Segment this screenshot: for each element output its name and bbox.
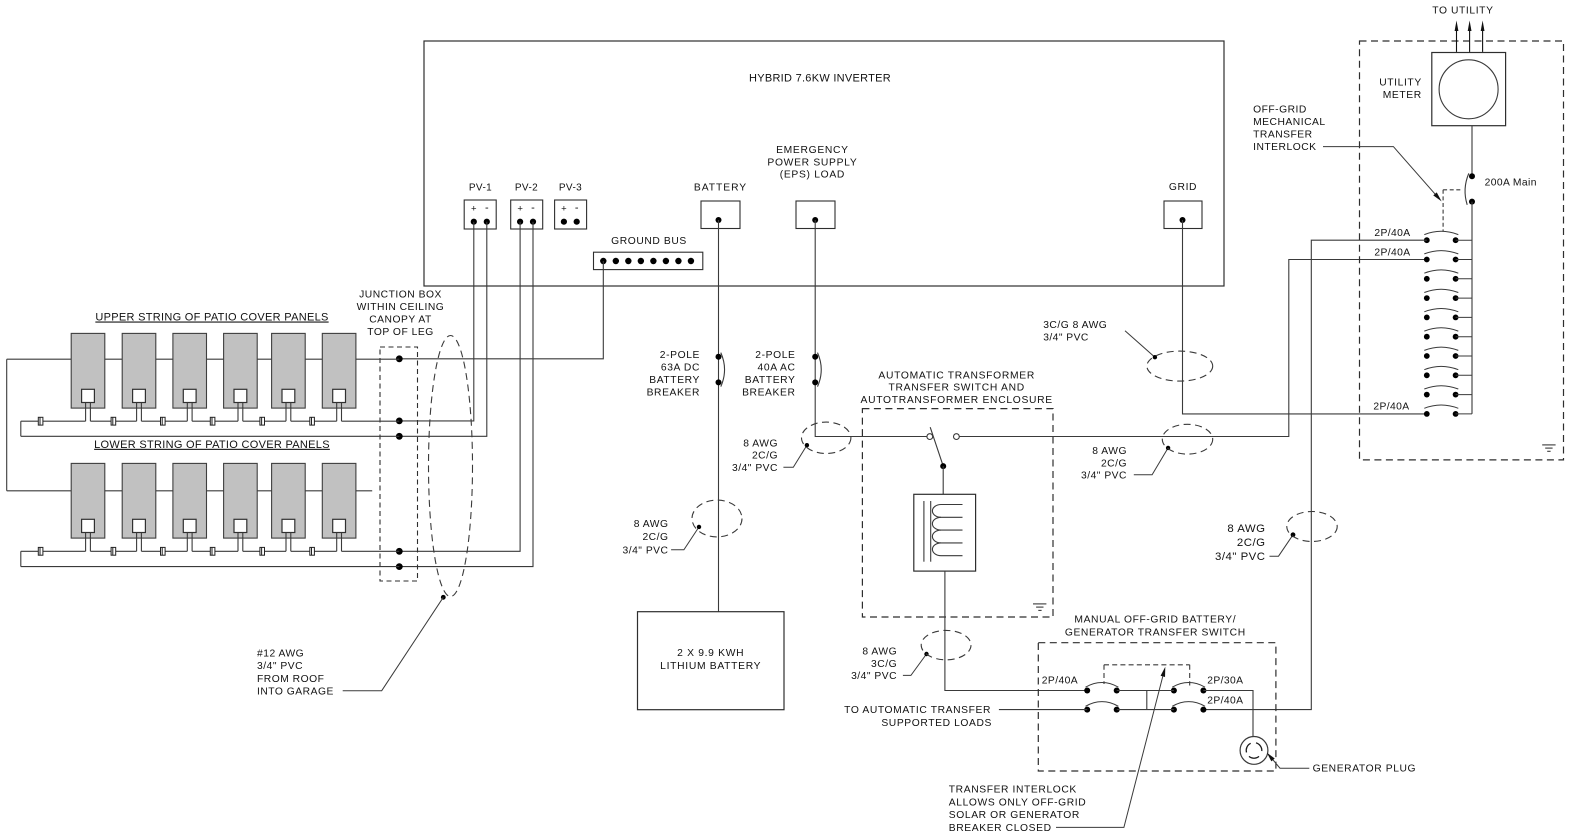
svg-text:2P/40A: 2P/40A xyxy=(1374,228,1410,239)
svg-text:-: - xyxy=(485,202,489,214)
svg-text:TOP OF LEG: TOP OF LEG xyxy=(367,327,433,338)
svg-text:63A DC: 63A DC xyxy=(661,363,700,374)
svg-text:SOLAR OR GENERATOR: SOLAR OR GENERATOR xyxy=(949,810,1080,821)
svg-text:2C/G: 2C/G xyxy=(1101,458,1127,469)
svg-text:2 X 9.9 KWH: 2 X 9.9 KWH xyxy=(677,648,744,659)
svg-text:GENERATOR TRANSFER SWITCH: GENERATOR TRANSFER SWITCH xyxy=(1065,628,1246,639)
svg-text:#12 AWG: #12 AWG xyxy=(257,648,304,659)
svg-text:ALLOWS ONLY OFF-GRID: ALLOWS ONLY OFF-GRID xyxy=(949,797,1087,808)
svg-text:AUTOTRANSFORMER ENCLOSURE: AUTOTRANSFORMER ENCLOSURE xyxy=(861,395,1053,406)
svg-text:BATTERY: BATTERY xyxy=(649,375,700,386)
svg-text:8 AWG: 8 AWG xyxy=(743,438,778,449)
svg-text:UPPER STRING OF PATIO COVER PA: UPPER STRING OF PATIO COVER PANELS xyxy=(95,312,328,324)
svg-text:AUTOMATIC TRANSFORMER: AUTOMATIC TRANSFORMER xyxy=(878,370,1035,381)
svg-text:3/4" PVC: 3/4" PVC xyxy=(1081,470,1127,481)
svg-text:8 AWG: 8 AWG xyxy=(1227,523,1265,535)
svg-text:SUPPORTED LOADS: SUPPORTED LOADS xyxy=(881,718,992,729)
svg-text:GRID: GRID xyxy=(1169,182,1197,193)
svg-text:PV-2: PV-2 xyxy=(515,183,538,194)
svg-text:3C/G 8 AWG: 3C/G 8 AWG xyxy=(1043,320,1107,331)
svg-text:TRANSFER: TRANSFER xyxy=(1253,130,1313,141)
svg-text:3/4" PVC: 3/4" PVC xyxy=(851,671,897,682)
svg-text:UTILITY: UTILITY xyxy=(1379,78,1422,89)
svg-text:BREAKER: BREAKER xyxy=(742,388,795,399)
svg-text:2C/G: 2C/G xyxy=(752,451,778,462)
svg-text:(EPS) LOAD: (EPS) LOAD xyxy=(780,170,845,181)
svg-text:MECHANICAL: MECHANICAL xyxy=(1253,117,1326,128)
svg-text:EMERGENCY: EMERGENCY xyxy=(776,145,849,156)
svg-text:BREAKER CLOSED: BREAKER CLOSED xyxy=(949,823,1052,834)
svg-text:FROM ROOF: FROM ROOF xyxy=(257,674,324,685)
svg-text:HYBRID 7.6KW INVERTER: HYBRID 7.6KW INVERTER xyxy=(749,73,891,85)
svg-text:POWER SUPPLY: POWER SUPPLY xyxy=(767,158,857,169)
svg-text:3/4" PVC: 3/4" PVC xyxy=(257,661,303,672)
svg-text:2P/40A: 2P/40A xyxy=(1042,675,1078,686)
svg-text:2-POLE: 2-POLE xyxy=(660,350,700,361)
svg-text:LOWER STRING OF PATIO COVER PA: LOWER STRING OF PATIO COVER PANELS xyxy=(94,439,330,451)
svg-text:3/4" PVC: 3/4" PVC xyxy=(622,545,668,556)
svg-text:INTERLOCK: INTERLOCK xyxy=(1253,142,1316,153)
svg-text:-: - xyxy=(575,202,579,214)
svg-text:2C/G: 2C/G xyxy=(1237,537,1266,549)
svg-text:TO UTILITY: TO UTILITY xyxy=(1432,5,1493,16)
svg-text:+: + xyxy=(561,204,567,215)
svg-text:8 AWG: 8 AWG xyxy=(862,647,897,658)
svg-text:OFF-GRID: OFF-GRID xyxy=(1253,104,1307,115)
svg-text:BATTERY: BATTERY xyxy=(745,375,796,386)
svg-text:INTO GARAGE: INTO GARAGE xyxy=(257,687,334,698)
svg-text:3C/G: 3C/G xyxy=(871,659,897,670)
svg-text:BREAKER: BREAKER xyxy=(647,388,700,399)
svg-text:GENERATOR PLUG: GENERATOR PLUG xyxy=(1313,763,1417,774)
svg-text:-: - xyxy=(531,202,535,214)
svg-text:2P/30A: 2P/30A xyxy=(1207,675,1243,686)
svg-text:8 AWG: 8 AWG xyxy=(1092,446,1127,457)
svg-text:2-POLE: 2-POLE xyxy=(755,350,795,361)
svg-text:3/4" PVC: 3/4" PVC xyxy=(1043,332,1089,343)
svg-text:TRANSFER SWITCH AND: TRANSFER SWITCH AND xyxy=(889,382,1025,393)
svg-text:3/4" PVC: 3/4" PVC xyxy=(1215,551,1265,563)
svg-text:3/4" PVC: 3/4" PVC xyxy=(732,463,778,474)
svg-text:MANUAL OFF-GRID BATTERY/: MANUAL OFF-GRID BATTERY/ xyxy=(1074,615,1236,626)
svg-text:2P/40A: 2P/40A xyxy=(1207,696,1243,707)
svg-text:+: + xyxy=(471,204,477,215)
svg-text:LITHIUM BATTERY: LITHIUM BATTERY xyxy=(660,661,761,672)
svg-text:TO AUTOMATIC TRANSFER: TO AUTOMATIC TRANSFER xyxy=(844,705,991,716)
svg-text:40A AC: 40A AC xyxy=(758,363,796,374)
svg-text:BATTERY: BATTERY xyxy=(694,183,747,194)
svg-text:200A Main: 200A Main xyxy=(1485,177,1537,188)
svg-text:JUNCTION BOX: JUNCTION BOX xyxy=(359,290,442,301)
svg-text:PV-3: PV-3 xyxy=(559,183,582,194)
svg-text:CANOPY AT: CANOPY AT xyxy=(369,315,432,326)
svg-text:PV-1: PV-1 xyxy=(469,183,492,194)
svg-text:+: + xyxy=(517,204,523,215)
svg-text:TRANSFER INTERLOCK: TRANSFER INTERLOCK xyxy=(949,784,1077,795)
svg-text:METER: METER xyxy=(1383,90,1422,101)
svg-text:2C/G: 2C/G xyxy=(642,532,668,543)
svg-text:GROUND BUS: GROUND BUS xyxy=(611,236,687,247)
svg-text:2P/40A: 2P/40A xyxy=(1374,248,1410,259)
svg-text:WITHIN CEILING: WITHIN CEILING xyxy=(357,302,445,313)
svg-text:2P/40A: 2P/40A xyxy=(1373,401,1409,412)
svg-text:8 AWG: 8 AWG xyxy=(634,519,669,530)
